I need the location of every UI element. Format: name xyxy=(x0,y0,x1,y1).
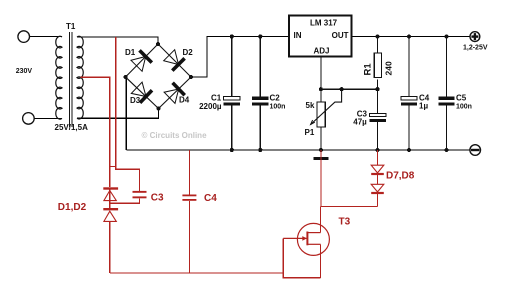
wire OUT to plus terminal xyxy=(351,36,470,38)
wire C4 red xyxy=(188,150,190,195)
svg-text:1µ: 1µ xyxy=(419,101,428,110)
node C2 bottom xyxy=(258,148,262,152)
node C4 top xyxy=(407,34,411,38)
svg-text:© Circuits Online: © Circuits Online xyxy=(142,131,208,140)
wire link A-B xyxy=(110,166,116,168)
svg-text:1,2-25V: 1,2-25V xyxy=(463,45,488,52)
svg-text:R1: R1 xyxy=(363,63,374,76)
svg-text:P1: P1 xyxy=(305,128,315,137)
wire ground rail xyxy=(126,149,470,151)
svg-text:C2: C2 xyxy=(270,94,281,103)
node C1 top xyxy=(230,34,234,38)
transformer T1 secondary winding xyxy=(77,36,83,119)
wire between red diodes xyxy=(109,190,111,208)
wire P1 tap down xyxy=(320,150,322,207)
transistor Q T3 xyxy=(283,223,329,255)
terminal bottom-left xyxy=(23,113,35,125)
svg-text:D4: D4 xyxy=(179,96,190,105)
node R1 bottom xyxy=(375,87,379,91)
capacitor C3 red xyxy=(133,191,147,198)
terminal plus output xyxy=(470,32,480,42)
wire bottom-left terminal to primary xyxy=(34,117,62,119)
node ADJ left xyxy=(319,87,323,91)
svg-text:D1: D1 xyxy=(125,48,136,57)
potentiometer P1 xyxy=(311,89,342,150)
diode D4 xyxy=(164,83,185,104)
svg-text:25V/1,5A: 25V/1,5A xyxy=(55,123,89,132)
transformer core xyxy=(68,32,70,127)
svg-text:D2: D2 xyxy=(183,48,194,57)
diode D8 xyxy=(371,184,384,193)
wire bridge left node down to ground rail xyxy=(125,77,127,150)
node bridge top xyxy=(156,42,160,46)
terminal minus output xyxy=(470,145,481,156)
capacitor C1 xyxy=(224,37,240,151)
node R1 top xyxy=(375,34,379,38)
svg-text:D1,D2: D1,D2 xyxy=(58,202,87,213)
capacitor C3 47u xyxy=(370,89,387,150)
capacitor C2 xyxy=(252,37,268,151)
transformer T1 primary winding xyxy=(56,36,62,119)
wire gate drop xyxy=(283,238,320,277)
node bridge bottom xyxy=(156,106,160,110)
svg-text:D3: D3 xyxy=(130,96,141,105)
wire top-left terminal to primary xyxy=(30,36,63,38)
wire secondary bottom to bridge xyxy=(77,109,159,119)
svg-text:240: 240 xyxy=(384,61,394,75)
svg-text:D7,D8: D7,D8 xyxy=(386,170,415,181)
svg-text:OUT: OUT xyxy=(332,31,349,40)
svg-text:LM 317: LM 317 xyxy=(310,19,338,28)
diode D1 xyxy=(131,50,152,71)
wire source vertical xyxy=(320,244,322,277)
svg-text:100n: 100n xyxy=(270,103,286,110)
svg-text:T3: T3 xyxy=(339,217,351,228)
wire drain vertical xyxy=(320,207,322,233)
svg-text:C3: C3 xyxy=(151,193,164,204)
node C3 bottom xyxy=(375,148,379,152)
svg-text:C5: C5 xyxy=(456,94,467,103)
diode D2 xyxy=(164,50,185,71)
op-amp U1 LM317 box xyxy=(289,16,351,57)
node C4 bottom xyxy=(407,148,411,152)
terminal top-left xyxy=(18,31,30,43)
bar P1 red tap xyxy=(314,157,329,160)
wire secondary top red drop xyxy=(115,37,117,167)
node C2 top xyxy=(258,34,262,38)
wire bridge right node to top rail corner xyxy=(191,37,289,78)
node C5 bottom xyxy=(444,148,448,152)
node C1 bottom xyxy=(230,148,234,152)
bridge diamond wires xyxy=(126,44,192,109)
node bridge right xyxy=(189,75,193,79)
wire below red diodes xyxy=(109,221,111,273)
wire drain horizontal xyxy=(321,206,378,208)
svg-text:47µ: 47µ xyxy=(353,117,367,126)
node bridge left xyxy=(123,75,127,79)
svg-text:2200µ: 2200µ xyxy=(199,102,222,111)
wire ADJ horizontal xyxy=(321,88,378,90)
diode D2 red bottom xyxy=(103,209,118,221)
diode D3 xyxy=(131,82,152,103)
wire B to C3 red xyxy=(116,167,140,191)
capacitor C4 red xyxy=(182,195,196,201)
wire C3 bottom link xyxy=(110,198,140,203)
wire transformer tap red xyxy=(81,77,110,187)
svg-text:5k: 5k xyxy=(306,101,315,110)
resistor R1 xyxy=(374,37,381,90)
wire ADJ pin down xyxy=(320,57,322,90)
node C5 top xyxy=(444,34,448,38)
capacitor C5 xyxy=(439,37,455,151)
node wiper xyxy=(340,87,344,91)
svg-text:T1: T1 xyxy=(66,22,76,31)
svg-text:C4: C4 xyxy=(204,193,217,204)
svg-text:230V: 230V xyxy=(16,68,33,75)
svg-text:IN: IN xyxy=(294,31,302,40)
diode D7 xyxy=(371,165,384,174)
wire D7D8 column xyxy=(377,150,379,165)
node P1 bottom xyxy=(319,148,323,152)
svg-text:100n: 100n xyxy=(456,103,472,110)
diode D1 red top xyxy=(103,189,118,201)
wire red bottom rail xyxy=(110,272,283,274)
svg-text:ADJ: ADJ xyxy=(313,47,329,56)
capacitor C4 1u xyxy=(401,37,417,151)
wire secondary top to bridge xyxy=(77,37,158,44)
